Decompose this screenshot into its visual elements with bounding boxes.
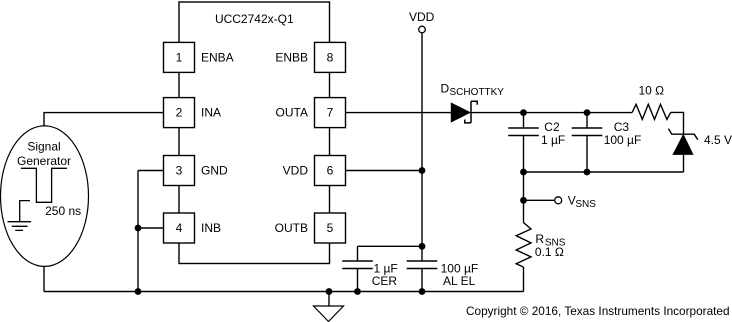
junction: C2 bottom (520, 169, 527, 176)
label VSNS (568, 194, 596, 210)
wire: VDD vertical (421, 33, 423, 261)
pin label OUTA (276, 106, 308, 120)
label 4.5 V (704, 133, 732, 147)
signal generator ellipse (1, 126, 89, 267)
diode D_SCHOTTKY (451, 101, 477, 123)
wire: GND drop to rail (137, 171, 139, 292)
pin label ENBA (201, 50, 234, 64)
svg-text:D: D (441, 81, 450, 95)
IC U1 UCC2742x-Q1 outline (179, 2, 330, 264)
svg-text:Generator: Generator (17, 154, 71, 168)
resistor RSNS (516, 222, 531, 267)
label 250 ns (45, 204, 81, 218)
svg-text:CER: CER (372, 274, 398, 288)
svg-text:2: 2 (176, 106, 183, 120)
svg-text:OUTB: OUTB (275, 221, 308, 235)
wire: signal generator bottom to ground rail (43, 266, 45, 291)
wire: INB pin4 stub (138, 227, 164, 229)
zener diode 4.5V (668, 129, 697, 155)
svg-text:6: 6 (327, 164, 334, 178)
label 1uF CER (372, 262, 398, 288)
svg-text:OUTA: OUTA (276, 106, 308, 120)
pin label OUTB (275, 221, 308, 235)
pin number 2 (176, 106, 183, 120)
wire: bottom ground rail (44, 291, 524, 293)
pin 8 box (315, 42, 346, 72)
pin 2 box (164, 98, 195, 128)
svg-text:INB: INB (201, 221, 221, 235)
label C3 100uF (604, 120, 642, 147)
junction: C3 bottom (584, 169, 591, 176)
svg-text:Copyright © 2016, Texas Instru: Copyright © 2016, Texas Instruments Inco… (466, 304, 730, 318)
ground (main, below rail) (314, 292, 344, 322)
junction: C2 top (520, 109, 527, 116)
capacitor C3 (572, 113, 603, 172)
pin number 8 (327, 50, 334, 64)
junction: pin6 VDD (419, 167, 426, 174)
label 100uF AL EL (441, 262, 479, 288)
junction: CER cap to rail (354, 288, 361, 295)
svg-text:4: 4 (176, 221, 183, 235)
label C2 1uF (541, 120, 565, 147)
svg-text:ENBB: ENBB (275, 50, 308, 64)
junction: GND drop to rail (135, 288, 142, 295)
pin 3 box (164, 156, 195, 186)
pin label INB (201, 221, 221, 235)
pin 6 box (315, 156, 346, 186)
capacitor 1uF CER (342, 246, 373, 291)
wire: zener to bottom node line (683, 154, 685, 172)
svg-text:1: 1 (176, 50, 183, 64)
pin number 3 (176, 164, 183, 178)
svg-text:8: 8 (327, 50, 334, 64)
svg-text:250 ns: 250 ns (45, 204, 81, 218)
node VSNS terminal (555, 197, 562, 204)
wire: VSNS stub (524, 199, 555, 201)
junction: AL EL cap to rail (419, 288, 426, 295)
junction: ground to rail (326, 288, 333, 295)
label 10 ohm (639, 83, 665, 97)
svg-text:SCHOTTKY: SCHOTTKY (450, 87, 505, 98)
pin label INA (201, 106, 221, 120)
ground (inside signal generator) (8, 201, 32, 231)
svg-text:INA: INA (201, 106, 221, 120)
svg-text:Signal: Signal (27, 140, 60, 154)
label VDD (409, 10, 435, 24)
resistor 10 ohm (632, 104, 671, 119)
pin number 5 (327, 221, 334, 235)
pin number 7 (327, 106, 334, 120)
svg-text:ENBA: ENBA (201, 50, 234, 64)
svg-text:100 µF: 100 µF (604, 133, 642, 147)
label copyright (466, 304, 730, 318)
pin label VDD (283, 164, 309, 178)
svg-text:10 Ω: 10 Ω (639, 83, 665, 97)
pin number 1 (176, 50, 183, 64)
junction: cap node on VDD vertical (419, 243, 426, 250)
svg-text:GND: GND (201, 164, 228, 178)
pin 1 box (164, 42, 195, 72)
pin label ENBB (275, 50, 308, 64)
pin 4 box (164, 213, 195, 243)
label UCC2742x-Q1 (215, 12, 294, 26)
wire: GND pin3 stub (138, 170, 164, 172)
wire: bottom node down to VSNS node (523, 172, 525, 222)
label D SCHOTTKY (441, 81, 505, 98)
svg-text:SNS: SNS (575, 199, 596, 210)
pulse waveform symbol (21, 168, 67, 202)
capacitor C2 (508, 113, 539, 172)
junction: VSNS tap (520, 197, 527, 204)
pin 5 box (315, 213, 346, 243)
svg-text:UCC2742x-Q1: UCC2742x-Q1 (215, 12, 294, 26)
svg-text:C2: C2 (544, 120, 560, 134)
wire: VDD pin6 to VDD vertical (346, 170, 423, 172)
svg-text:0.1 Ω: 0.1 Ω (535, 245, 564, 259)
label RSNS 0.1 ohm (535, 232, 566, 259)
wire: capacitor bottom node line (524, 171, 684, 173)
svg-text:3: 3 (176, 164, 183, 178)
pin label GND (201, 164, 228, 178)
svg-text:7: 7 (327, 106, 334, 120)
wire: INA pin2 to signal generator (44, 113, 164, 127)
wire: OUTA pin7 to diode (346, 112, 452, 114)
wire: CER cap top to VDD vertical (358, 245, 423, 247)
svg-text:4.5 V: 4.5 V (704, 133, 732, 147)
junction: C3 top (584, 109, 591, 116)
capacitor 100uF AL EL (407, 261, 438, 292)
svg-text:1 µF: 1 µF (541, 133, 565, 147)
svg-text:5: 5 (327, 221, 334, 235)
wire: resistor to zener (671, 112, 684, 133)
svg-text:C3: C3 (614, 120, 630, 134)
svg-text:VDD: VDD (409, 10, 435, 24)
wire: diode to resistor (471, 112, 632, 114)
svg-text:VDD: VDD (283, 164, 309, 178)
svg-text:AL EL: AL EL (443, 274, 476, 288)
wire: RSNS to rail (523, 267, 525, 292)
pin number 4 (176, 221, 183, 235)
pin 7 box (315, 98, 346, 128)
junction: INB to GND drop (135, 225, 142, 232)
label Signal Generator (17, 140, 71, 168)
pin number 6 (327, 164, 334, 178)
node VDD supply terminal (419, 26, 426, 33)
